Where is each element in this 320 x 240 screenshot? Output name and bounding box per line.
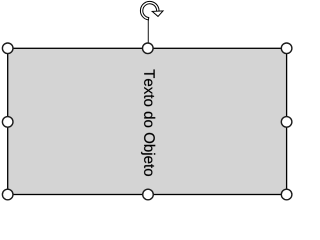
selection handles xyxy=(2,43,292,200)
handle bottom-mid xyxy=(143,189,154,200)
handle mid-right xyxy=(281,117,292,128)
object text label xyxy=(141,69,155,175)
handle top-right xyxy=(281,43,292,54)
handle top-left xyxy=(2,43,13,54)
handle bottom-left xyxy=(2,189,13,200)
handle top-mid xyxy=(143,43,154,54)
rotation handle stem wire xyxy=(147,20,149,44)
object body (selected gray rectangle) xyxy=(8,48,287,194)
handle mid-left xyxy=(2,117,13,128)
handle bottom-right xyxy=(281,189,292,200)
rotate icon (circular arrow) xyxy=(140,1,163,20)
